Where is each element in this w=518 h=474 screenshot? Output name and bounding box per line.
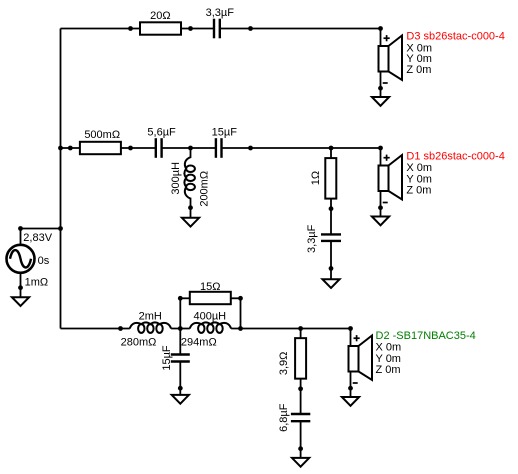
junction below shunt cap: [329, 266, 334, 271]
wire 15Ω right lead: [230, 297, 240, 299]
speaker cone D2: [359, 336, 373, 381]
junction bus mid row: [58, 146, 63, 151]
ground shunt coil: [182, 218, 199, 227]
junction 15Ω left pin: [178, 296, 183, 301]
capacitor 3,3µF shunt: [321, 233, 341, 235]
svg-text:1Ω: 1Ω: [310, 171, 322, 185]
junction below 15µF: [178, 386, 183, 391]
junction source top: [18, 226, 23, 231]
junction 15Ω right pin: [238, 296, 243, 301]
wire mid row segment 3: [222, 147, 381, 149]
voltage source sine wave: [10, 250, 31, 267]
inductor 400µH: [190, 322, 231, 333]
wire speaker bottom lead D1: [380, 191, 382, 217]
junction below 1Ω: [329, 206, 334, 211]
svg-text:280mΩ: 280mΩ: [121, 337, 157, 349]
wire shunt coil top lead: [190, 148, 192, 158]
ground D1: [372, 217, 389, 226]
wire speaker top lead D2: [350, 329, 352, 348]
svg-text:5,6µF: 5,6µF: [147, 127, 176, 139]
svg-text:300µH: 300µH: [170, 162, 182, 195]
inductor 2mH: [130, 322, 171, 333]
svg-text:3,3µF: 3,3µF: [306, 224, 318, 253]
wire mid row segment 2: [162, 147, 216, 149]
svg-text:D2 -SB17NBAC35-4: D2 -SB17NBAC35-4: [376, 330, 476, 342]
junction row1 pin: [128, 26, 133, 31]
speaker body D3: [379, 46, 389, 72]
svg-text:Z 0m: Z 0m: [406, 184, 431, 196]
svg-text:20Ω: 20Ω: [150, 10, 170, 22]
resistor 15Ω: [190, 292, 231, 304]
svg-text:3,3µF: 3,3µF: [206, 7, 235, 19]
svg-text:2mH: 2mH: [139, 310, 162, 322]
voltage source V1 circle: [7, 245, 35, 273]
junction row1 speaker node: [378, 26, 383, 31]
inductor 300µH shunt: [184, 157, 195, 198]
svg-text:200mΩ: 200mΩ: [199, 171, 211, 207]
junction row3 pin: [118, 326, 123, 331]
junction row2 node B: [329, 146, 334, 151]
ground source: [12, 297, 29, 306]
wire source to bus: [21, 228, 61, 230]
wire speaker top lead D3: [380, 29, 382, 48]
wire speaker bottom lead D3: [380, 72, 382, 98]
junction row3 speaker node: [348, 326, 353, 331]
wire riser left 15Ω: [179, 298, 181, 328]
wire 1Ω top lead: [330, 148, 332, 158]
svg-text:2,83V: 2,83V: [23, 232, 52, 244]
junction row2 node A: [188, 146, 193, 151]
junction row2 pin 3: [248, 146, 253, 151]
speaker plus pin label D2: [354, 337, 360, 339]
svg-text:Z 0m: Z 0m: [376, 364, 401, 376]
resistor 1Ω shunt: [325, 158, 336, 199]
capacitor 15µF series: [215, 138, 217, 158]
junction speaker bottom D2: [348, 386, 353, 391]
speaker plus pin label D3: [384, 37, 390, 39]
junction row3 node C: [298, 326, 303, 331]
junction speaker bottom D3: [378, 86, 383, 91]
svg-text:X 0m: X 0m: [376, 342, 402, 354]
wire woofer row segment 3: [231, 328, 350, 330]
junction row2 speaker node: [378, 146, 383, 151]
speaker minus pin label D2: [353, 382, 358, 384]
svg-text:Z 0m: Z 0m: [406, 64, 431, 76]
ground 6,8µF: [292, 458, 309, 467]
wire riser right 15Ω: [240, 298, 242, 328]
junction row1 pin 3: [248, 26, 253, 31]
speaker cone D1: [389, 155, 403, 200]
junction row1 pin 2: [188, 26, 193, 31]
svg-text:1mΩ: 1mΩ: [25, 276, 49, 288]
speaker minus pin label D3: [383, 82, 388, 84]
junction bus source row: [58, 226, 63, 231]
wire 1Ω to cap: [330, 199, 332, 235]
junction row3 node B: [238, 326, 243, 331]
wire cap to ground: [330, 241, 332, 279]
capacitor 15µF shunt: [171, 353, 190, 355]
wire source top lead: [20, 229, 22, 247]
capacitor 3,3µF series: [213, 19, 215, 39]
svg-text:D3 sb26stac-c000-4: D3 sb26stac-c000-4: [406, 30, 504, 42]
junction below 3,9Ω: [298, 386, 303, 391]
junction source bottom: [18, 285, 23, 290]
svg-text:294mΩ: 294mΩ: [181, 337, 217, 349]
wire mid row segment: [61, 147, 156, 149]
speaker plus pin label D1: [384, 157, 390, 159]
wire tweeter row segment: [61, 28, 215, 30]
wire 6,8µF bottom lead: [300, 421, 302, 458]
wire left bus vertical: [60, 29, 62, 329]
wire 15Ω left lead: [180, 297, 190, 299]
junction below 6,8µF: [298, 446, 303, 451]
svg-text:500mΩ: 500mΩ: [84, 129, 120, 141]
wire 3,9Ω top lead: [300, 329, 302, 339]
ground D2: [342, 397, 359, 406]
wire speaker bottom lead D2: [350, 372, 352, 398]
resistor 500mΩ: [80, 142, 121, 154]
speaker cone D3: [389, 36, 403, 81]
junction row3 node A: [178, 326, 183, 331]
svg-text:Y 0m: Y 0m: [376, 353, 401, 365]
ground D3: [372, 97, 389, 106]
svg-text:15µF: 15µF: [212, 127, 238, 139]
svg-text:400µH: 400µH: [193, 310, 226, 322]
wire 3,9Ω to cap: [300, 379, 302, 414]
junction row2 pin 2: [128, 146, 133, 151]
svg-text:D1 sb26stac-c000-4: D1 sb26stac-c000-4: [406, 151, 504, 163]
wire 15µF top lead: [179, 329, 181, 355]
junction speaker bottom D1: [378, 205, 383, 210]
wire source bottom lead: [20, 272, 22, 298]
capacitor 6,8µF shunt: [291, 413, 310, 415]
ground shunt cap: [322, 279, 339, 288]
speaker body D2: [349, 346, 359, 372]
wire tweeter row segment 2: [220, 28, 381, 30]
speaker minus pin label D1: [383, 202, 388, 204]
svg-text:6,8µF: 6,8µF: [278, 403, 290, 432]
junction row2 pin: [68, 146, 73, 151]
wire woofer row segment 2: [171, 328, 190, 330]
speaker body D1: [379, 166, 389, 192]
capacitor 5,6µF: [155, 138, 157, 158]
svg-text:X 0m: X 0m: [406, 162, 432, 174]
svg-text:3,9Ω: 3,9Ω: [278, 352, 290, 376]
svg-text:0s: 0s: [38, 255, 50, 267]
wire 15µF bottom lead: [179, 362, 181, 395]
svg-text:15Ω: 15Ω: [200, 281, 220, 293]
wire woofer row segment: [61, 328, 130, 330]
svg-text:15µF: 15µF: [161, 345, 173, 371]
ground 15µF: [172, 395, 189, 404]
junction shunt coil bottom: [188, 205, 193, 210]
wire shunt coil bottom lead: [190, 198, 192, 218]
wire speaker top lead D1: [380, 148, 382, 167]
resistor 20Ω: [140, 22, 181, 34]
resistor 3,9Ω: [295, 338, 306, 379]
